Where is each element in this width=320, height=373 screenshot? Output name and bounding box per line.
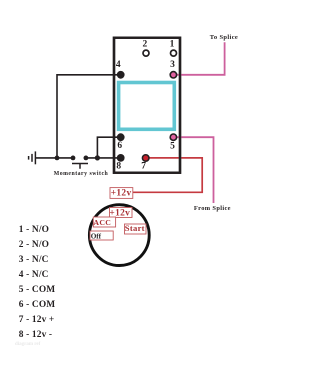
svg-text:8: 8 [116,162,121,172]
pin 2 [143,50,149,56]
ignition switch circle [89,205,149,266]
pink wire pin 3 to splice [173,42,224,75]
ground wire [36,157,73,159]
junction node to pin 6 [95,155,100,160]
svg-text:4 - N/C: 4 - N/C [19,270,49,280]
momentary switch actuator [72,164,88,169]
svg-text:4: 4 [116,60,121,70]
svg-text:3 - N/C: 3 - N/C [19,255,49,265]
svg-text:From Splice: From Splice [194,205,231,212]
relay box outline redraw [114,38,180,173]
junction node at pin4 drop [55,156,60,161]
red wire pin 7 to +12v [133,158,202,192]
relay box [114,38,180,173]
svg-text:5 - COM: 5 - COM [19,285,55,295]
pin 3 [170,72,176,78]
svg-text:6: 6 [117,141,122,151]
svg-text:3: 3 [170,60,175,70]
svg-text:2: 2 [143,39,148,49]
svg-text:8 - 12v -: 8 - 12v - [19,330,52,340]
ground [29,151,36,164]
+12v supply box [110,188,133,199]
momentary switch contact left [71,156,76,161]
ACC box [93,217,115,227]
wire switch to pin 8 [86,157,121,159]
pink wire pin 5 from splice [173,137,213,203]
svg-text:2 - N/O: 2 - N/O [19,240,49,250]
pin 7 [142,155,149,162]
wire junction to pin 6 [97,137,120,158]
svg-text:Off: Off [91,232,102,240]
relay coil (teal) [119,83,175,130]
svg-text:1 - N/O: 1 - N/O [19,225,49,235]
pin 5 [170,134,176,140]
momentary switch contact right [84,156,89,161]
wire from pin 4 to junction [57,75,121,158]
svg-text:7: 7 [141,162,146,172]
Off box [90,231,113,240]
svg-text:Start: Start [125,223,145,233]
pin 1 [171,50,177,56]
pin 6 [117,133,125,141]
svg-text:6 - COM: 6 - COM [19,300,55,310]
svg-text:To Splice: To Splice [210,34,238,41]
svg-text:+12v: +12v [111,189,132,199]
pin 4 [117,71,125,79]
svg-text:diagram ref: diagram ref [15,342,41,347]
svg-text:1: 1 [170,39,175,49]
svg-text:ACC: ACC [93,218,111,227]
Start box [125,224,147,234]
svg-text:5: 5 [170,142,175,152]
ignition +12v box [110,208,133,218]
pin 8 [117,154,125,162]
svg-text:Momentary switch: Momentary switch [54,171,109,177]
svg-text:7 - 12v +: 7 - 12v + [19,315,55,325]
